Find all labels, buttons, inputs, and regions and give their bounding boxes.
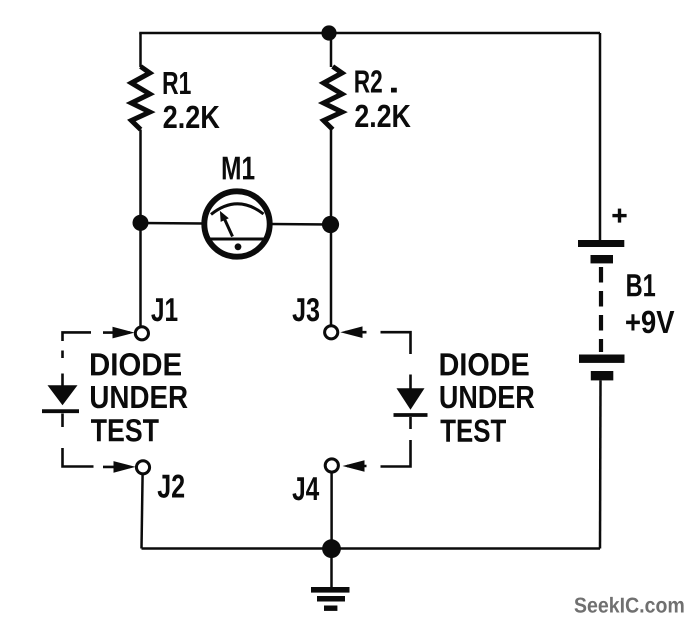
arrow into J2 [103, 461, 136, 473]
label R2 [355, 70, 382, 92]
label UNDER (right) [441, 386, 535, 408]
battery B1 top short plate [591, 255, 614, 263]
wire meter right [270, 223, 331, 226]
wire top rail [141, 33, 601, 34]
label R1 [164, 72, 191, 94]
label M1 [223, 157, 255, 180]
wire dashed corner top-left [63, 332, 92, 341]
battery B1 plus sign [612, 209, 626, 223]
label UNDER (left) [91, 386, 188, 408]
node junction dot meter left [133, 215, 149, 231]
label DIODE (right) [441, 353, 529, 376]
diode under test right cathode bar [394, 413, 428, 417]
wire mid rail meter to J3 [330, 225, 333, 326]
node junction dot bottom [322, 539, 341, 558]
jack J2 circle [136, 461, 149, 474]
wire J4 to bottom rail [330, 473, 333, 549]
meter M1 pivot dot [235, 243, 242, 250]
wire dash left upper [61, 351, 64, 359]
wire mid rail R2 to meter junction [330, 130, 333, 225]
node junction dot meter right [322, 216, 339, 233]
wire left rail R1 to J1 [139, 130, 142, 327]
label B1 [627, 274, 655, 296]
label J4 [293, 477, 320, 500]
diode under test left cathode bar [42, 409, 79, 413]
meter M1 needle arrowhead [220, 211, 229, 222]
wire dashed corner top-right [381, 332, 411, 354]
label DIODE (left) [91, 353, 181, 376]
label R2 period [391, 88, 397, 93]
wire diode left cathode lead [61, 414, 64, 428]
ground symbol [311, 587, 350, 611]
arrow into J4 [343, 460, 367, 472]
label J2 [158, 474, 185, 497]
wire diode right cathode lead [409, 417, 412, 429]
meter M1 needle [225, 219, 233, 237]
resistor R2 [324, 67, 342, 130]
battery B1 bottom short plate [591, 371, 614, 380]
diode under test right (triangle) [397, 388, 425, 409]
wire mid rail top to R2 [330, 33, 333, 67]
meter M1 lower chord [206, 238, 268, 241]
wire dash left lower + corner bottom-left [63, 448, 94, 467]
jack J4 circle [325, 459, 338, 472]
resistor R1 [131, 67, 149, 130]
wire ground stem [330, 549, 333, 588]
meter M1 scale arc [211, 204, 264, 215]
label +9V [626, 311, 674, 334]
wire right rail lower (battery to bottom) [599, 381, 602, 549]
label watermark SeekIC.com [575, 597, 684, 613]
wire diode right anode lead [409, 375, 412, 389]
battery B1 bottom long plate [579, 355, 625, 363]
diode under test left (triangle) [48, 385, 78, 405]
arrow into J3 [340, 326, 366, 338]
wire meter left [141, 222, 205, 225]
battery B1 top long plate [578, 240, 624, 247]
meter M1 body [204, 191, 269, 256]
node junction dot top [321, 25, 336, 40]
jack J1 circle [135, 327, 148, 340]
wire diode left anode lead [61, 374, 64, 387]
wire bottom rail [142, 547, 601, 550]
label R1 value 2.2K [164, 106, 220, 128]
label TEST (right) [441, 419, 507, 442]
wire right rail upper [599, 33, 602, 241]
label J1 [151, 298, 177, 321]
wire left rail upper (top to R1) [139, 33, 142, 67]
wire J2 to bottom rail [142, 474, 143, 549]
wire dash right lower + corner bottom-right [381, 440, 411, 467]
label TEST (left) [91, 419, 159, 442]
jack J3 circle [325, 326, 338, 339]
label R2 value 2.2K [355, 105, 410, 127]
arrow into J1 [103, 327, 135, 339]
battery B1 dashed middle [599, 267, 603, 352]
label J3 [293, 298, 320, 321]
